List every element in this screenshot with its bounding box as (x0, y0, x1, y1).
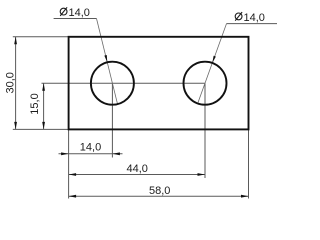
58,0 left arrow (points left) (69, 195, 77, 198)
44,0 right arrow (points right) (198, 173, 206, 176)
14,0 right arrow (outside, points left) (112, 152, 120, 155)
30,0 top arrow (up) (14, 37, 17, 45)
30,0 bottom arrow (down) (14, 122, 17, 129)
svg-text:44,0: 44,0 (126, 163, 147, 175)
14,0 left arrow (outside, points right) (61, 152, 69, 155)
dimension line 14,0 (59, 153, 123, 155)
hole 1 (91, 62, 134, 105)
58,0 right arrow (points right) (241, 195, 249, 198)
arrowheads (14, 37, 248, 198)
hole 2 (184, 62, 227, 105)
dimension line 58,0 (69, 195, 249, 197)
vertical extension from hole 1 center (111, 83, 113, 157)
dimension line 30,0 (15, 37, 17, 130)
extension line top (30,0) (13, 36, 69, 38)
diameter symbol hole 2 (235, 12, 242, 21)
diameter symbol hole 1 (60, 7, 67, 16)
svg-text:14,0: 14,0 (69, 7, 90, 19)
vertical extension from right bottom corner (248, 129, 250, 198)
leader shoulder right (227, 23, 278, 25)
15,0 bottom arrow (down) (42, 122, 45, 129)
svg-text:58,0: 58,0 (149, 185, 170, 197)
horizontal centerline through hole centers (42, 82, 206, 84)
vertical extension from left bottom corner (68, 129, 70, 198)
svg-text:15,0: 15,0 (29, 93, 41, 114)
plate outline (69, 37, 249, 130)
dimension line 44,0 (69, 174, 205, 176)
vertical extension from hole 2 center (204, 83, 206, 178)
leader slant right through hole 2 center (198, 24, 227, 104)
svg-text:14,0: 14,0 (80, 141, 101, 153)
15,0 top arrow (up) (42, 83, 45, 91)
svg-text:30,0: 30,0 (4, 72, 16, 93)
leader arrow hole 1 (points down-right toward center) (104, 55, 107, 62)
leader shoulder left (54, 18, 97, 20)
dimension texts (4, 7, 265, 197)
extension line bottom (30,0) (13, 128, 69, 130)
44,0 left arrow (points left) (69, 173, 77, 176)
dimension line 15,0 (43, 83, 45, 129)
svg-text:14,0: 14,0 (244, 12, 265, 24)
leader slant left through hole 1 center (97, 19, 118, 105)
leader arrow hole 2 (points down-left toward center) (212, 56, 216, 63)
